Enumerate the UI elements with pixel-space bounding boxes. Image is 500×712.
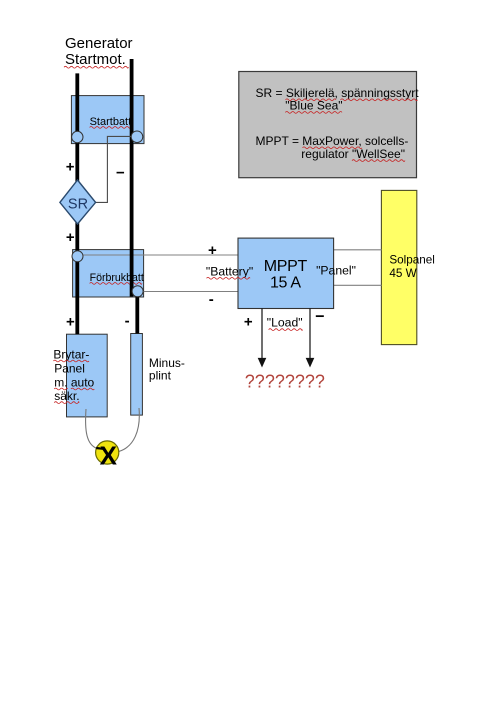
svg-text:"Panel": "Panel": [316, 264, 356, 278]
breaker panel box: [67, 334, 108, 417]
squiggle under Blue Sea: [285, 112, 342, 114]
svg-text:"Load": "Load": [267, 315, 303, 329]
svg-text:+: +: [66, 314, 75, 331]
load wire - arrow: [309, 309, 311, 359]
svg-text:"Blue Sea": "Blue Sea": [285, 99, 342, 113]
svg-text:MPPT: MPPT: [264, 258, 308, 275]
svg-text:"Battery": "Battery": [206, 264, 253, 278]
svg-text:Startmot.: Startmot.: [65, 51, 126, 68]
svg-text:regulator "WellSee": regulator "WellSee": [301, 147, 405, 161]
svg-text:????????: ????????: [245, 371, 325, 391]
svg-text:+: +: [66, 229, 75, 246]
svg-text:säkr.: säkr.: [54, 389, 79, 403]
squiggle under Startbatt: [90, 127, 131, 129]
svg-text:Panel: Panel: [54, 362, 85, 376]
MPPT regulator box: [238, 238, 334, 308]
legend box: [239, 72, 417, 178]
battery Startbatt box: [71, 96, 144, 144]
wire minus strip to lamp: [119, 408, 140, 452]
svg-text:Förbrukbatt: Förbrukbatt: [90, 272, 144, 284]
relay SR diamond: [60, 180, 96, 224]
terminal startbatt left: [72, 131, 83, 142]
svg-text:−: −: [116, 165, 125, 182]
svg-text:X: X: [100, 441, 118, 471]
svg-text:plint: plint: [149, 368, 172, 382]
minus strip bar: [131, 334, 143, 416]
lamp circle: [96, 441, 119, 464]
thick wire left (generator to breaker panel): [75, 73, 79, 334]
svg-text:Brytar-: Brytar-: [53, 347, 89, 361]
svg-text:−: −: [315, 308, 324, 325]
terminal förbrukbatt top left: [72, 251, 83, 262]
svg-text:m. auto: m. auto: [54, 375, 94, 389]
terminal startbatt right: [131, 131, 143, 143]
thick wire right upper (startmot to förbrukbatt): [130, 59, 134, 297]
squiggle under Startmot.: [64, 66, 129, 68]
svg-text:Generator: Generator: [65, 35, 133, 52]
wire battery + to MPPT: [83, 254, 238, 256]
battery Förbrukbatt box: [73, 250, 144, 297]
svg-text:Startbatt: Startbatt: [90, 116, 132, 128]
svg-text:15 A: 15 A: [270, 275, 301, 292]
squiggle under Battery: [207, 277, 251, 279]
solar panel box: [381, 190, 416, 344]
squiggle under MaxPower: [303, 147, 363, 149]
svg-text:SR: SR: [68, 196, 88, 212]
load wire + arrow: [261, 309, 263, 359]
svg-text:Solpanel: Solpanel: [389, 254, 435, 267]
thick wire right lower (förbrukbatt to minus strip): [135, 291, 139, 334]
thin wire startbatt to SR relay: [96, 136, 131, 202]
squiggle under Load: [269, 329, 303, 331]
squiggle under WellSee: [352, 160, 405, 162]
terminal förbrukbatt bottom right: [132, 286, 143, 297]
svg-text:45 W: 45 W: [389, 267, 416, 280]
svg-text:+: +: [208, 242, 217, 259]
squiggle under Förbrukbatt: [90, 283, 142, 285]
svg-text:+: +: [244, 314, 253, 331]
wire battery - to MPPT: [143, 291, 238, 293]
svg-text:+: +: [66, 159, 75, 176]
wire MPPT panel +: [334, 249, 382, 251]
squiggle under Skiljerelä: [286, 99, 337, 101]
squiggle under spänningsstyrt: [341, 99, 418, 101]
svg-text:-: -: [125, 312, 130, 329]
wire end dash at lamp left: [96, 447, 103, 450]
wire breaker to lamp: [86, 409, 97, 449]
wire MPPT panel -: [334, 284, 382, 286]
svg-text:-: -: [209, 291, 214, 308]
